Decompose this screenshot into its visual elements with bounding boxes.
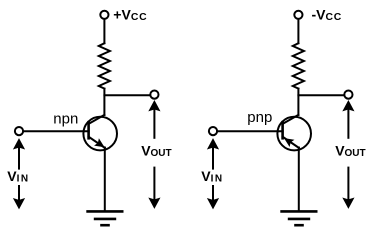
arrow VOUT left down bbox=[148, 168, 160, 209]
arrow VOUT left up bbox=[148, 100, 160, 138]
wire bbox=[297, 20, 299, 44]
wire bbox=[218, 130, 283, 132]
terminal VIN left bbox=[15, 127, 23, 135]
wire bbox=[103, 20, 105, 44]
terminal VOUT left bbox=[150, 91, 158, 99]
ground bbox=[280, 211, 317, 225]
arrow VOUT right down bbox=[342, 168, 354, 209]
transistor Q1 npn bbox=[83, 115, 117, 151]
wire bbox=[298, 94, 344, 96]
arrow VOUT right up bbox=[342, 100, 354, 138]
svg-text:VOUT: VOUT bbox=[141, 143, 171, 160]
transistor Q2 pnp bbox=[277, 115, 311, 150]
terminal VOUT right bbox=[344, 91, 352, 99]
wire bbox=[104, 94, 150, 96]
wire bbox=[297, 89, 299, 115]
svg-text:npn: npn bbox=[53, 111, 78, 128]
svg-text:VIN: VIN bbox=[201, 168, 223, 185]
svg-text:+VCC: +VCC bbox=[113, 6, 147, 23]
wire bbox=[103, 89, 105, 115]
svg-text:-VCC: -VCC bbox=[312, 6, 343, 23]
resistor R1 bbox=[99, 43, 110, 88]
arrow VIN left up bbox=[13, 138, 25, 169]
svg-text:VIN: VIN bbox=[7, 168, 29, 185]
arrow VIN right down bbox=[207, 186, 219, 209]
svg-text:pnp: pnp bbox=[247, 109, 272, 126]
wire bbox=[24, 130, 89, 132]
arrow VIN right up bbox=[207, 138, 219, 169]
terminal -VCC bbox=[294, 11, 302, 19]
svg-text:VOUT: VOUT bbox=[335, 143, 365, 160]
arrow VIN left down bbox=[13, 186, 25, 209]
resistor R2 bbox=[293, 43, 304, 88]
wire bbox=[298, 148, 300, 211]
wire bbox=[104, 148, 106, 211]
terminal VIN right bbox=[209, 127, 217, 135]
terminal +VCC bbox=[100, 11, 108, 19]
ground bbox=[86, 211, 123, 225]
